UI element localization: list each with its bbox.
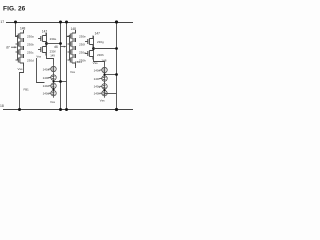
wire left mirror to chain [47,55,54,65]
wire right mirror mid chain [93,36,95,59]
wire top rail [6,22,133,24]
svg-text:Vss: Vss [100,98,106,102]
svg-text:140a: 140a [43,67,50,71]
svg-text:230g: 230g [79,51,86,55]
svg-text:d6: d6 [54,45,58,49]
transistor 140b [49,73,57,82]
svg-text:147: 147 [95,31,101,35]
svg-text:140g: 140g [94,85,101,89]
svg-text:140e: 140e [94,68,101,72]
svg-text:140h: 140h [94,92,101,96]
transistor 140f [100,74,108,83]
svg-text:140f: 140f [94,77,100,81]
node dot right bus chain [115,73,118,76]
wire right mid to output bus [94,48,117,50]
svg-text:140d: 140d [43,92,50,96]
node dot bottom rail C [65,108,68,111]
svg-text:140b: 140b [43,76,50,80]
transistor 140g [100,82,108,91]
node dot top rail A [14,21,17,24]
wire right gate feeder full height [67,22,70,110]
node dot bottom rail D [115,108,118,111]
node dot chain mid [59,80,62,83]
wire bottom rail [3,109,133,111]
svg-text:149: 149 [50,54,55,58]
svg-text:230d: 230d [27,59,34,63]
wire right mirror to chain [94,59,105,66]
node dot top rail C [65,21,68,24]
svg-text:230a: 230a [27,35,34,39]
wire left cell output bus [60,22,62,110]
transistor 140h [100,89,108,98]
node dot right chain junction b [103,89,105,91]
wire left mid to output bus [47,43,61,45]
node dot top rail B [59,21,62,24]
svg-text:230h: 230h [97,53,104,57]
wire chain gate feed left [37,58,45,83]
svg-text:148: 148 [20,26,26,30]
wire chain mid to buses [54,81,67,83]
transistor 230h r [68,54,76,66]
svg-text:Vss: Vss [50,100,56,104]
transistor 230g r [68,46,76,58]
node dot right bus mid [115,47,118,50]
svg-text:Vss: Vss [36,55,41,59]
wire left gate feeder [16,22,18,37]
node dot output bus mid [59,42,62,45]
node dot chain junction b [52,88,54,90]
svg-text:230e: 230e [50,37,57,41]
transistor 230b [16,38,24,50]
svg-text:FB11: FB11 [75,60,82,64]
svg-text:FB1: FB1 [24,88,30,92]
transistor 230a [16,30,24,42]
transistor 230f r [68,38,76,50]
svg-text:140c: 140c [43,84,50,88]
node dot top rail D [115,20,118,23]
wire left mirror mid chain [46,33,48,55]
transistor 230e r [68,30,76,42]
node dot right chain junction a [103,73,105,75]
wire left gate bus [17,35,19,61]
node dot bottom rail B [59,108,62,111]
svg-text:Vss: Vss [70,70,76,74]
wire right chain mid to bus [105,74,117,76]
svg-text:Vss: Vss [18,67,24,71]
node dot chain junction a [52,80,54,82]
svg-text:230f: 230f [79,43,85,47]
transistor 140c [49,81,57,90]
svg-text:230g: 230g [97,40,104,44]
transistor 140e [100,66,108,75]
transistor 230c [16,46,24,58]
transistor 140d [49,89,57,98]
svg-text:230c: 230c [27,51,34,55]
wire right stack bottom [75,64,77,68]
transistor 230g m [85,36,93,48]
wire right output bus [116,22,118,110]
svg-text:17: 17 [0,20,4,24]
svg-text:147: 147 [42,29,48,33]
node dot bottom rail A [18,108,21,111]
svg-text:230e: 230e [79,35,86,39]
svg-text:FIG. 26: FIG. 26 [3,6,26,13]
wire right chain row4 to bus [105,93,117,95]
transistor 230f [38,44,46,56]
svg-text:d7: d7 [6,46,10,50]
transistor 230d [16,54,24,66]
transistor 230h m [85,48,93,60]
node dot right mirror mid [92,47,95,50]
svg-text:18: 18 [0,104,4,108]
wire right gate bus [69,35,71,61]
transistor 230e [38,33,46,45]
wire left stack to bottom rail [20,64,24,110]
node dot left mirror mid [45,42,48,45]
transistor 140a [49,65,57,74]
svg-text:230b: 230b [27,43,34,47]
